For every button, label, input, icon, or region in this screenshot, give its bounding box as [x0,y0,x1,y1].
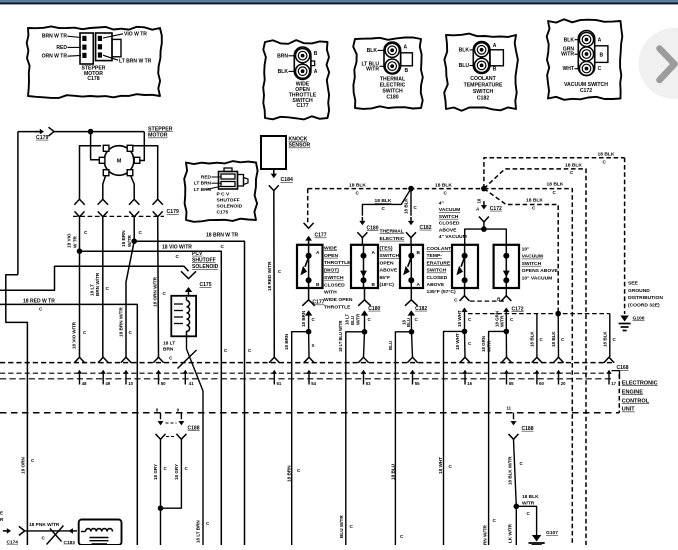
svg-text:BLU: BLU [459,63,470,69]
svg-text:C175: C175 [217,209,229,215]
svg-text:18 LT BLU W/TR: 18 LT BLU W/TR [338,321,343,352]
svg-text:18 PNK W/TR: 18 PNK W/TR [29,522,60,528]
svg-text:C175: C175 [200,282,212,288]
svg-text:18 BLK W/TR: 18 BLK W/TR [508,456,513,485]
ECU pin 50 [153,357,163,363]
svg-text:P C V: P C V [217,191,230,197]
connector C172 below 4in vacuum switch [464,288,466,296]
stepper motor M [104,146,134,176]
svg-text:18 BLK: 18 BLK [547,182,564,188]
svg-text:18 BLK: 18 BLK [603,331,608,347]
junction node vacuum switches [481,226,487,232]
svg-text:GROUND: GROUND [628,288,650,294]
svg-text:18 BRN: 18 BRN [121,230,126,247]
wire to pin 16 [464,331,467,357]
svg-text:18 WHT: 18 WHT [457,310,462,327]
svg-text:BLK: BLK [564,37,575,43]
svg-text:SWITCH: SWITCH [324,275,344,281]
svg-text:M: M [117,159,122,165]
svg-text:18 BLK: 18 BLK [526,197,543,203]
wire 18 BRN W/TR with jog to pin 10 [133,217,135,241]
wire to pin 55 [412,332,413,357]
svg-text:C180: C180 [386,94,398,100]
TES switch box [351,245,378,288]
svg-text:(COORD 32E): (COORD 32E) [628,303,660,309]
svg-text:18 ORN W/TR: 18 ORN W/TR [153,276,158,307]
wire 18 BLK to C180 [362,189,411,216]
svg-text:18 BRN W/TR: 18 BRN W/TR [119,307,124,337]
svg-text:C188: C188 [188,426,200,432]
svg-text:(WOT): (WOT) [324,268,339,274]
wire to pin 53 [364,332,365,357]
svg-text:COOLANT: COOLANT [470,76,496,82]
wire 18 VIO W/TR feed to corner [80,251,222,545]
svg-text:SENSOR: SENSOR [289,143,311,149]
wire 18 ORN W/TR vertical to pin 50 [157,217,160,357]
knock sensor box [261,136,286,169]
ECU pin 48 [74,357,84,363]
svg-text:C179: C179 [36,135,48,141]
svg-text:COOLANT: COOLANT [427,246,452,252]
svg-text:48: 48 [82,381,87,386]
svg-text:18 BLK: 18 BLK [530,331,535,347]
PCV shutoff solenoid coil box [171,296,196,337]
connector C174 fork [19,526,25,535]
ECU box bottom dashed [0,412,619,414]
svg-text:18 GRY: 18 GRY [153,464,158,480]
svg-text:C179: C179 [167,209,179,215]
svg-text:18 GRY: 18 GRY [174,464,179,480]
svg-text:CLOSED: CLOSED [324,282,345,288]
connector C179 arrow [35,131,40,133]
svg-text:B: B [493,67,497,73]
svg-text:10: 10 [128,381,133,386]
wire 18 RED W/TR knock sensor to pin 51 [273,191,276,358]
svg-text:18 BLK: 18 BLK [404,198,409,214]
svg-text:THROTTLE: THROTTLE [324,304,351,310]
svg-text:W/TR: W/TR [356,313,361,325]
svg-text:PCV: PCV [192,251,203,257]
svg-text:18 BLK: 18 BLK [375,198,392,204]
svg-text:ERATURE: ERATURE [427,260,451,266]
svg-text:A: A [372,250,376,256]
svg-text:C182: C182 [420,225,432,231]
svg-text:18 BRN: 18 BRN [287,465,292,482]
svg-text:BRN: BRN [277,53,288,59]
svg-text:W/TR: W/TR [487,340,492,352]
svg-text:C177: C177 [315,233,327,239]
junction node 4in vacuum output [462,329,468,335]
ignition coil box [79,520,122,546]
svg-text:ELECTRIC: ELECTRIC [380,236,405,242]
svg-text:C183: C183 [64,540,76,545]
svg-text:A: A [417,282,421,288]
wire - C179 feed horizontal [18,131,39,133]
svg-text:SEE: SEE [628,281,639,287]
ECU pin 55 [501,357,511,363]
wire 18 BLK to pin 20 [557,314,559,358]
svg-text:C177: C177 [296,103,308,109]
svg-text:A: A [493,43,497,49]
connector C188 forks [156,434,166,439]
svg-text:SWITCH: SWITCH [439,214,459,220]
svg-text:C172: C172 [512,306,524,312]
svg-text:MOTOR: MOTOR [148,133,168,139]
connector C174 arrow [3,530,8,532]
wire 18 BLK dashed to ground G106 [624,158,626,314]
svg-text:18 BLK: 18 BLK [522,494,539,500]
svg-text:C182: C182 [477,96,489,102]
connector C172 arrow up 4in [464,310,466,313]
svg-text:WIDE: WIDE [324,246,338,252]
connector C182 below coolant switch [410,288,412,300]
svg-text:C168: C168 [617,365,629,371]
svg-text:B: B [417,250,421,256]
connector C177 fork above WOT [304,223,314,228]
svg-text:49: 49 [105,381,110,386]
svg-text:X: X [312,343,315,348]
svg-text:DISTRIBUTION: DISTRIBUTION [628,295,663,301]
connector C182 arrow [410,217,412,222]
svg-text:C178: C178 [87,76,99,82]
svg-text:B: B [372,282,376,288]
ECU connector C168 bus dashed line [0,362,613,364]
svg-text:11: 11 [507,405,512,410]
C172 connector drawing [578,31,594,76]
svg-text:W TR: W TR [73,235,78,248]
wire 18 BLK dashed branch mid [484,169,586,545]
svg-text:BLU: BLU [350,316,355,325]
ECU pin 60 [532,357,542,363]
ECU connector right end bracket [612,371,620,380]
svg-text:C177: C177 [312,300,324,306]
svg-text:THERMAL: THERMAL [380,228,404,234]
svg-text:ABOVE: ABOVE [380,268,398,274]
connector callout C182 coolant temperature switch - torn box [444,34,518,111]
svg-text:18 BRN: 18 BRN [284,334,289,350]
svg-text:18 RED W/TR: 18 RED W/TR [267,261,272,291]
svg-text:C180: C180 [367,225,379,231]
C182 connector drawing [473,42,490,74]
WOT switch box [297,245,323,288]
connector C177 below WOT [308,288,310,300]
svg-text:18 ORN: 18 ORN [21,457,26,474]
svg-text:THROTTLE: THROTTLE [324,260,351,266]
C180 connector drawing [384,42,401,74]
wire dashed drop to C177 [307,189,309,223]
svg-text:B: B [314,51,318,57]
svg-text:(TES): (TES) [380,246,393,252]
svg-text:16: 16 [467,381,472,386]
svg-text:10" VACUUM: 10" VACUUM [522,275,553,281]
svg-text:4": 4" [439,201,445,207]
svg-text:A: A [316,250,320,256]
svg-text:C184: C184 [281,177,293,183]
connector C183 arrow [72,530,77,532]
wire to 10in vacuum switch [484,229,506,245]
junction node coolant output [409,329,415,335]
ECU pin 49 [98,357,108,363]
wire 18 GRY left [160,439,162,545]
carousel next button [639,28,678,99]
svg-text:C172: C172 [580,88,592,94]
svg-text:WITH: WITH [324,290,337,296]
connector C182 fork [406,232,416,237]
svg-text:C180: C180 [368,306,380,312]
svg-text:18 LT: 18 LT [90,284,95,296]
svg-text:WIDE OPEN: WIDE OPEN [324,297,353,303]
ECU pin 53 [358,357,368,363]
svg-text:BRN: BRN [163,346,174,352]
svg-text:WHT: WHT [563,66,575,72]
svg-text:18 GRN: 18 GRN [481,336,486,352]
svg-text:60: 60 [539,381,544,386]
svg-text:10": 10" [522,247,531,253]
svg-text:C182: C182 [415,306,427,312]
svg-text:C188: C188 [522,426,534,432]
connector C184 arrow [273,169,275,174]
C177 connector drawing [294,47,311,79]
svg-text:ELECTRONIC: ELECTRONIC [622,380,658,386]
svg-text:TEMP-: TEMP- [427,253,443,259]
wire 18 LT BRN from solenoid with splice X [186,336,188,349]
wire - motor inner left lead [103,176,106,200]
junction node 10in vacuum output [504,329,510,335]
connector callout C172 vacuum switch - torn box [547,19,623,100]
svg-text:18 WHT: 18 WHT [455,333,460,350]
svg-text:18 BLK: 18 BLK [349,182,366,188]
wire 18 BLK to C182 [410,189,412,216]
svg-text:18 BLK: 18 BLK [551,331,556,347]
junction node 18 BLK left [408,186,414,192]
svg-text:SHUTOFF: SHUTOFF [217,197,240,203]
ECU pin 41 [184,372,186,375]
connector C172 below 10in vacuum switch [505,288,507,296]
wire 18 BRN vertical to pin 49 [102,217,104,357]
wire 18 GRY right [161,439,182,508]
svg-text:A: A [404,44,408,50]
wire 18 BLU W/TR branch to bottom [346,332,365,545]
svg-text:CLOSED: CLOSED [427,275,448,281]
wire - left drop from C179 [17,132,19,275]
svg-text:B: B [600,52,604,58]
svg-text:(18°C): (18°C) [380,282,395,288]
ECU box right edge dashed [618,374,620,413]
svg-text:A: A [598,37,602,43]
ECU pin 20 [553,357,563,363]
svg-text:SWITCH: SWITCH [427,268,447,274]
PCV solenoid drawing [219,172,238,190]
wire 18 BLK to pin 17 [609,314,611,358]
wire 18 BLK to pin 60 [536,314,538,358]
wire 18 VIO W/TR vertical [79,217,81,357]
wire 18 PNK W/TR [25,530,73,532]
wire - center drop to motor [91,132,100,160]
svg-text:VACUUM: VACUUM [522,254,543,260]
junction node 18 BLK right [481,186,487,192]
junction node at stepper feed [88,129,94,135]
svg-text:55: 55 [509,381,514,386]
svg-text:C174: C174 [7,540,19,545]
ECU pin 10 [121,357,131,363]
wire 18 BLK W/TR to ground [514,439,517,506]
svg-text:18 WHT: 18 WHT [438,457,443,474]
wire 18 BRN to pin 54 [308,332,310,358]
svg-text:18 VIO W/TR: 18 VIO W/TR [72,321,77,349]
wire - motor inner right lead [131,176,135,200]
svg-text:RN W/TR: RN W/TR [483,524,488,545]
wire to ground G107 [516,506,536,535]
svg-text:18 LT: 18 LT [345,313,350,325]
svg-text:18 BLK: 18 BLK [435,182,452,188]
svg-text:G106: G106 [633,315,645,321]
svg-text:SWITCH: SWITCH [522,261,542,267]
svg-text:RED: RED [201,174,212,180]
connector callout C177 wide open throttle switch - torn box [263,40,329,119]
junction node BLK W/TR [514,504,520,510]
svg-text:18: 18 [477,198,482,203]
svg-text:BLK: BLK [367,48,378,54]
C178 connector drawing [80,33,93,64]
svg-text:18 VIO W/TR: 18 VIO W/TR [162,244,192,250]
wire to 4in vacuum switch [465,229,484,245]
svg-text:50: 50 [161,381,166,386]
connector C172 arrow up 10in [505,310,507,313]
svg-text:41: 41 [189,381,194,386]
wire 18 RED W TR horizontal [0,304,137,545]
wire - right drop to motor [140,132,145,161]
wire dashed C172 band to ECU pins 60-20-17 [468,313,610,315]
svg-text:54: 54 [311,381,316,386]
junction node BRN [131,238,137,244]
junction node TES output [362,329,368,335]
svg-text:E: E [0,511,3,516]
wire 18 BLK dashed branch low [484,189,558,312]
connector C179 harness-side forks and dashed strip [73,215,164,217]
svg-text:18 BLK: 18 BLK [565,163,582,169]
connector C180 fork [357,232,367,237]
svg-text:W/TR: W/TR [366,67,379,73]
connector C175 fork [181,271,196,278]
svg-text:W/TR: W/TR [127,234,132,247]
svg-text:18 BRN W TR: 18 BRN W TR [206,233,239,239]
svg-text:51: 51 [277,381,282,386]
connector C175 arrow up [188,291,190,294]
svg-text:17: 17 [611,381,616,386]
connector callout C180 thermal electric switch - torn box [353,37,423,109]
wire 18 GRN W/TR branch to bottom [489,331,507,545]
connector C172 fork [479,217,489,222]
svg-text:ORN W TR: ORN W TR [42,54,68,60]
svg-text:BRN W TR: BRN W TR [42,34,68,40]
svg-text:53: 53 [366,381,371,386]
wire - stepped feed to PCV solenoid [0,266,189,290]
svg-text:ENGINE: ENGINE [622,389,643,395]
svg-text:OPEN: OPEN [324,253,338,259]
top toolbar blue strip [0,0,678,2]
C172 band dashed [470,300,505,302]
svg-text:BLK: BLK [278,69,289,75]
svg-text:SWITCH: SWITCH [380,253,400,259]
svg-text:TEMPERATURE: TEMPERATURE [464,83,503,89]
wire 18 BRN W/TR feed to corner [134,241,244,545]
coolant temperature switch box [400,245,423,288]
svg-text:BLU: BLU [406,318,411,327]
svg-text:OPEN: OPEN [380,260,394,266]
wire 18 BLK dashed main horizontal [308,188,484,190]
svg-text:CONTROL: CONTROL [622,398,650,404]
svg-text:CLOSED: CLOSED [439,221,460,227]
junction node WOT output [306,329,312,335]
svg-text:4" VACUUM: 4" VACUUM [439,234,467,240]
svg-text:18 BRN: 18 BRN [301,311,306,327]
ECU connector band upper dashed line [0,372,611,374]
wire 18 WHT branch to bottom [444,331,465,545]
svg-text:18 BLK: 18 BLK [598,151,615,157]
wire 18 BRN branch to bottom [292,332,309,545]
svg-text:135°F (57°C): 135°F (57°C) [427,289,456,295]
connector C179 fork [49,127,55,136]
connector C184 fork [269,185,279,190]
junction node 18 BLK band [555,311,561,317]
svg-text:A: A [314,69,318,75]
svg-text:SHUTOFF: SHUTOFF [192,257,216,263]
svg-text:18 LT: 18 LT [163,341,175,347]
svg-text:55: 55 [415,381,420,386]
wire to pin 55 right [505,331,507,357]
svg-text:STEPPER: STEPPER [148,126,173,132]
connector C179 motor-side forks [74,199,84,205]
ECU connector band lower dashed line [0,378,611,380]
wire 18 BLK dashed branch upper [484,158,625,189]
connector C180 arrow [361,217,363,222]
wire - motor outer left lead [80,146,102,199]
svg-text:W/TR: W/TR [500,315,505,327]
svg-text:UNIT: UNIT [622,407,635,413]
connector C177 arrow up into WOT [308,239,310,242]
splice X on PNK wire [47,526,64,545]
svg-text:B: B [405,68,409,74]
svg-text:LK W/TR: LK W/TR [508,523,513,543]
svg-text:20: 20 [561,381,566,386]
svg-text:VIO W TR: VIO W TR [124,31,147,37]
svg-text:18 BLU: 18 BLU [391,463,396,480]
svg-text:OPENS ABOVE: OPENS ABOVE [522,268,559,274]
wire 18 BLU branch to bottom [395,332,411,545]
junction node VIO [77,248,83,254]
connector callout C178 stepper motor - torn box [27,26,162,98]
wire 18 BLK dashed branch straight right [484,189,572,545]
ECU pin 51 [269,357,279,363]
junction node GRY [158,505,164,511]
svg-text:BLK: BLK [459,48,470,54]
4 inch vacuum switch box [452,245,478,288]
svg-text:LT BRN: LT BRN [194,187,212,193]
svg-text:G107: G107 [546,530,558,536]
wire - motor outer right lead [134,146,158,199]
svg-text:LT BRN W TR: LT BRN W TR [119,58,152,64]
svg-text:18 VIO: 18 VIO [67,233,72,248]
svg-text:18 LT BRN: 18 LT BRN [196,520,201,543]
svg-text:VACUUM: VACUUM [439,207,460,213]
svg-text:C: C [598,66,602,72]
svg-text:ABOVE: ABOVE [427,282,445,288]
svg-text:ABOVE: ABOVE [439,227,457,233]
svg-text:BLU: BLU [388,341,393,350]
svg-text:RED: RED [56,45,67,51]
PCV shutoff solenoid callout - torn box [184,161,257,222]
connector C180 below TES [364,288,366,300]
